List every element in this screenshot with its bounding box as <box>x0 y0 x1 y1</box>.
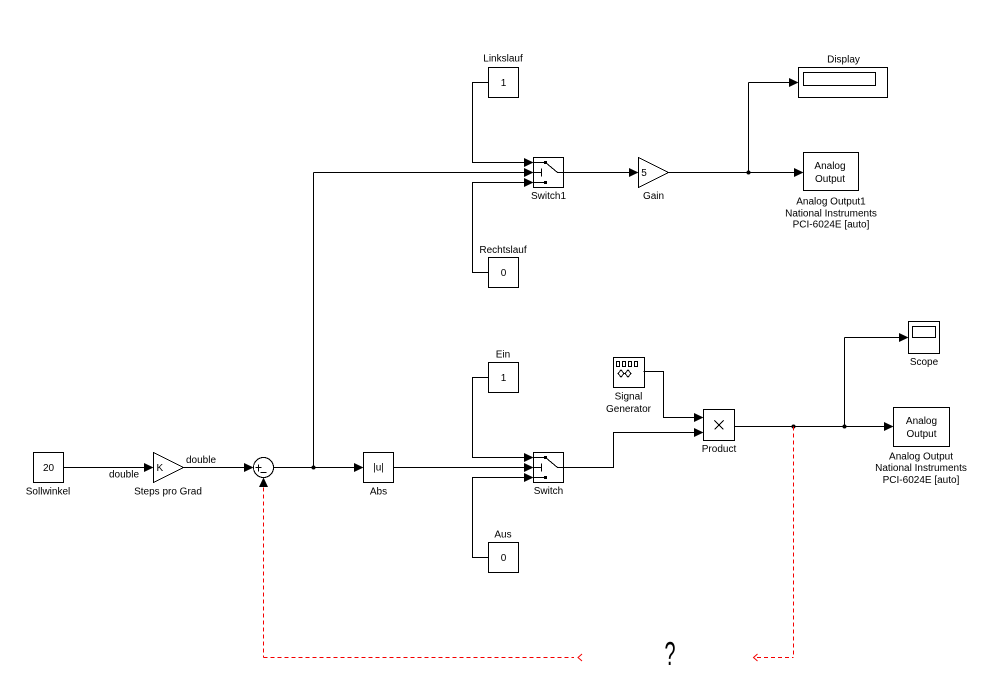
gain block Gain (5) <box>639 158 669 203</box>
svg-text:PCI-6024E [auto]: PCI-6024E [auto] <box>793 220 870 231</box>
svg-text:Ein: Ein <box>496 350 510 361</box>
svg-text:double: double <box>186 455 216 466</box>
wire Signal Generator to Product input 1 <box>644 372 704 423</box>
constant block Sollwinkel value 20 <box>26 453 70 498</box>
junction node after sum <box>312 466 316 470</box>
junction node (scope tap) <box>843 425 847 429</box>
svg-text:0: 0 <box>501 553 507 564</box>
svg-text:Display: Display <box>827 55 860 66</box>
wire Rechtslauf to Switch1 bottom input <box>473 178 534 273</box>
svg-text:Signal: Signal <box>615 392 643 403</box>
svg-text:Generator: Generator <box>606 404 652 415</box>
svg-text:Product: Product <box>702 444 737 455</box>
svg-text:Analog Output1: Analog Output1 <box>796 197 866 208</box>
signal generator block <box>606 358 652 416</box>
svg-text:Abs: Abs <box>370 487 387 498</box>
junction node on Gain output <box>747 171 751 175</box>
svg-text:K: K <box>157 463 164 474</box>
wire Sollwinkel to Steps pro Grad <box>64 463 154 472</box>
wire sum to Abs <box>274 463 364 472</box>
svg-text:Scope: Scope <box>910 357 939 368</box>
wire Linkslauf to Switch1 top input <box>473 83 534 168</box>
constant block Linkslauf value 1 <box>483 54 523 98</box>
svg-text:National Instruments: National Instruments <box>875 463 967 474</box>
wire Product to Analog Output <box>735 422 894 431</box>
wire branch up to Display <box>749 78 799 173</box>
svg-text:20: 20 <box>43 463 55 474</box>
svg-text:PCI-6024E [auto]: PCI-6024E [auto] <box>883 475 960 486</box>
wire Switch to Product input 2 <box>564 428 704 468</box>
wire Aus to Switch bottom input <box>473 473 534 558</box>
wire Steps pro Grad to Sum <box>184 463 254 472</box>
wire branch up to Switch1 middle input <box>314 168 534 468</box>
red dashed unconnected feedback wire from output line <box>754 427 794 662</box>
Abs block |u| <box>364 453 394 498</box>
svg-text:Output: Output <box>906 429 936 440</box>
scope block <box>909 322 940 369</box>
svg-text:double: double <box>109 470 139 481</box>
display block Display <box>799 55 888 98</box>
svg-text:National Instruments: National Instruments <box>785 209 877 220</box>
svg-text:Switch1: Switch1 <box>531 191 566 202</box>
red dashed unconnected feedback wire from sum <box>264 488 583 662</box>
svg-text:Aus: Aus <box>494 530 511 541</box>
wire Abs to Switch middle input <box>394 463 534 472</box>
wire Switch1 to Gain <box>564 168 639 177</box>
svg-text:Switch: Switch <box>534 486 563 497</box>
block Analog Output <box>875 408 967 487</box>
svg-text:Analog: Analog <box>906 416 937 427</box>
svg-text:Output: Output <box>815 174 845 185</box>
junction node (red feedback tap) <box>792 425 796 429</box>
svg-text:1: 1 <box>501 78 507 89</box>
product block <box>702 410 737 456</box>
svg-text:Linkslauf: Linkslauf <box>483 54 523 65</box>
constant block Rechtslauf value 0 <box>479 245 526 288</box>
svg-text:0: 0 <box>501 268 507 279</box>
switch block Switch <box>534 453 564 498</box>
block Analog Output1 <box>785 153 877 231</box>
svg-text:|u|: |u| <box>373 463 384 474</box>
svg-text:Sollwinkel: Sollwinkel <box>26 487 70 498</box>
svg-text:?: ? <box>665 635 676 672</box>
svg-text:Analog Output: Analog Output <box>889 452 953 463</box>
arrow into sum bottom input <box>259 478 268 488</box>
svg-text:Analog: Analog <box>814 161 845 172</box>
constant block Ein value 1 <box>489 350 519 393</box>
svg-text:Steps pro Grad: Steps pro Grad <box>134 487 202 498</box>
wire branch up to Scope <box>845 333 909 427</box>
svg-text:5: 5 <box>641 168 647 179</box>
svg-text:Gain: Gain <box>643 191 664 202</box>
sum block (+ -) <box>254 458 274 478</box>
svg-text:1: 1 <box>501 373 507 384</box>
wire Ein to Switch top input <box>473 378 534 463</box>
constant block Aus value 0 <box>489 530 519 573</box>
wire Gain to Analog Output1 <box>669 168 804 177</box>
gain block Steps pro Grad (K) <box>134 453 202 498</box>
svg-text:Rechtslauf: Rechtslauf <box>479 245 526 256</box>
switch block Switch1 <box>531 158 566 203</box>
